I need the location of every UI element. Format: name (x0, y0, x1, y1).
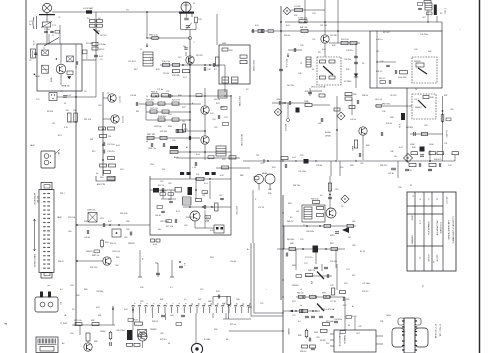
svg-text:13: 13 (210, 303, 212, 305)
svg-text:USE QTY: USE QTY (445, 196, 447, 205)
svg-text:KEY 4.7k: KEY 4.7k (285, 59, 287, 67)
svg-text:0.1: 0.1 (184, 299, 187, 301)
svg-text:OTL: OTL (376, 51, 380, 53)
svg-text:7: 7 (171, 303, 173, 304)
svg-text:40: 40 (146, 141, 148, 143)
svg-text:REMARKS: REMARKS (411, 236, 414, 246)
svg-text:K006: K006 (51, 78, 53, 82)
svg-text:+L 12k: +L 12k (32, 40, 34, 45)
svg-text:R55: R55 (340, 167, 343, 169)
svg-text:C5 25: C5 25 (85, 55, 87, 60)
svg-text:DETECTOR: DETECTOR (240, 134, 242, 146)
svg-text:C13: C13 (110, 159, 113, 161)
svg-text:R80: R80 (298, 335, 301, 337)
svg-text:TONE 20k: TONE 20k (298, 18, 307, 20)
svg-text:17k: 17k (196, 174, 199, 176)
svg-text:C50: C50 (450, 109, 453, 111)
svg-text:PB 4R: PB 4R (35, 76, 41, 78)
svg-text:2SC372: 2SC372 (196, 55, 203, 57)
svg-text:8: 8 (178, 303, 180, 304)
svg-text:D2: D2 (341, 206, 343, 208)
svg-text:C75 100u: C75 100u (362, 283, 370, 285)
svg-text:2SB54: 2SB54 (100, 331, 106, 333)
svg-text:C2: C2 (58, 17, 60, 19)
svg-text:C20 40: C20 40 (130, 95, 136, 97)
svg-text:RECORDER PIN: RECORDER PIN (436, 221, 438, 236)
svg-text:2SC732GR: 2SC732GR (252, 60, 254, 72)
svg-text:B+ 9V: B+ 9V (360, 251, 366, 253)
svg-text:C51: C51 (444, 143, 447, 145)
svg-text:C80: C80 (316, 337, 319, 339)
svg-text:SP 8R: SP 8R (320, 340, 326, 342)
svg-text:CR2 10p: CR2 10p (154, 126, 161, 128)
svg-text:0.1: 0.1 (60, 289, 63, 291)
svg-text:C45 1u: C45 1u (350, 119, 356, 121)
svg-text:2SA101: 2SA101 (415, 106, 422, 109)
svg-text:0.1: 0.1 (170, 287, 173, 289)
svg-text:4: 4 (152, 303, 154, 304)
svg-text:T1: T1 (43, 48, 45, 50)
svg-text:R13: R13 (100, 177, 103, 179)
svg-text:C57 30: C57 30 (258, 207, 264, 209)
svg-text:2SB324: 2SB324 (292, 285, 299, 287)
svg-text:C68 100u: C68 100u (306, 231, 314, 233)
svg-text:0.04: 0.04 (205, 221, 209, 223)
svg-text:R74: R74 (292, 301, 295, 303)
svg-text:2SC734: 2SC734 (287, 85, 294, 87)
svg-text:C89: C89 (160, 333, 163, 335)
svg-text:400Hz: 400Hz (325, 132, 331, 134)
svg-text:R40: R40 (366, 145, 369, 147)
svg-text:R33: R33 (305, 91, 308, 93)
svg-text:R46: R46 (430, 97, 433, 99)
svg-text:SW2: SW2 (248, 307, 252, 309)
svg-text:C59 40: C59 40 (230, 261, 236, 263)
svg-text:IFT2: IFT2 (176, 211, 180, 213)
svg-text:C86: C86 (170, 315, 173, 317)
svg-text:C60: C60 (68, 231, 71, 233)
svg-text:REC: REC (240, 175, 245, 177)
svg-text:C90: C90 (398, 187, 401, 189)
svg-text:CR6 6: CR6 6 (276, 99, 283, 101)
svg-text:+on: +on (47, 285, 50, 287)
svg-text:R21 4.7k: R21 4.7k (172, 100, 180, 102)
svg-text:C58 30p: C58 30p (96, 291, 103, 293)
svg-text:100-196: 100-196 (436, 255, 438, 262)
svg-text:R88: R88 (208, 301, 211, 303)
svg-text:1.8 2W: 1.8 2W (294, 6, 300, 8)
svg-text:C70: C70 (300, 239, 303, 241)
svg-text:ANT PIN: ANT PIN (97, 183, 105, 186)
svg-text:P.U. BOARD: P.U. BOARD (439, 223, 442, 234)
svg-text:C14: C14 (120, 169, 123, 171)
svg-text:1 2 3: 1 2 3 (419, 220, 421, 224)
svg-text:CR7 27k: CR7 27k (150, 108, 158, 110)
svg-text:MW OSC: MW OSC (382, 104, 391, 106)
svg-text:0.01: 0.01 (204, 183, 208, 185)
svg-text:100P: 100P (410, 144, 415, 146)
svg-text:R23: R23 (216, 103, 219, 105)
svg-text:2: 2 (194, 42, 195, 44)
svg-text:R39: R39 (350, 165, 353, 167)
svg-text:0.02: 0.02 (124, 309, 128, 311)
svg-text:CR 30: CR 30 (388, 173, 395, 175)
svg-text:2SC372: 2SC372 (118, 96, 120, 103)
svg-text:8 OHM: 8 OHM (204, 339, 210, 341)
svg-text:C4: C4 (100, 59, 102, 61)
svg-text:TP1: TP1 (256, 155, 259, 157)
svg-text:10k: 10k (108, 136, 111, 138)
svg-text:R12: R12 (92, 151, 95, 153)
svg-text:R42 0.5: R42 0.5 (379, 78, 385, 80)
svg-text:4 5: 4 5 (419, 257, 421, 260)
svg-text:C19 40: C19 40 (163, 73, 169, 75)
svg-text:C78: C78 (358, 326, 361, 328)
svg-text:1 2: 1 2 (427, 198, 429, 201)
svg-text:R69: R69 (292, 265, 295, 267)
svg-text:LOCATION OF COMPONENTS: LOCATION OF COMPONENTS (452, 217, 455, 244)
svg-text:C42: C42 (380, 61, 383, 63)
svg-text:R27 1k: R27 1k (158, 185, 164, 187)
svg-text:R84: R84 (84, 289, 87, 291)
svg-text:0.02: 0.02 (222, 303, 226, 305)
svg-text:R57 1.5k: R57 1.5k (166, 226, 173, 228)
svg-text:R22: R22 (182, 107, 185, 109)
svg-text:0.01: 0.01 (322, 49, 326, 51)
svg-text:T4: T4 (415, 89, 417, 91)
svg-text:CWR 47u: CWR 47u (87, 210, 96, 212)
svg-text:40: 40 (168, 343, 170, 345)
svg-text:C32: C32 (219, 195, 222, 197)
svg-text:0.02: 0.02 (108, 221, 112, 223)
svg-text:R87: R87 (160, 299, 163, 301)
svg-text:PIN 20: PIN 20 (58, 261, 64, 263)
svg-text:2: 2 (139, 303, 141, 304)
svg-text:C17: C17 (178, 57, 181, 59)
svg-text:R79 1k: R79 1k (230, 324, 236, 326)
svg-text:1000u: 1000u (386, 315, 391, 317)
svg-text:C69: C69 (352, 245, 355, 247)
svg-text:MODULATOR: MODULATOR (33, 193, 36, 206)
svg-text:C64: C64 (115, 265, 118, 267)
svg-text:2SB405: 2SB405 (150, 329, 157, 331)
svg-text:0.04: 0.04 (292, 157, 296, 159)
svg-text:9: 9 (184, 303, 186, 304)
svg-text:TAPE: TAPE (57, 216, 62, 219)
svg-text:D1: D1 (362, 63, 364, 65)
svg-text:JACK: JACK (30, 144, 36, 147)
svg-text:40: 40 (312, 69, 314, 71)
svg-text:RN6: RN6 (168, 126, 172, 128)
svg-text:R31 150: R31 150 (341, 39, 349, 41)
svg-text:C71 47u: C71 47u (305, 257, 313, 259)
svg-text:BAL 20k: BAL 20k (300, 26, 308, 29)
svg-text:BIAS: BIAS (351, 146, 354, 151)
svg-text:2SB377: 2SB377 (186, 217, 193, 219)
svg-text:RW7 RN: RW7 RN (147, 134, 155, 136)
svg-text:2x: 2x (141, 258, 143, 260)
svg-text:C49: C49 (424, 125, 427, 127)
svg-text:C37: C37 (312, 39, 315, 41)
svg-text:C24: C24 (168, 114, 171, 116)
svg-text:C25: C25 (214, 127, 217, 129)
svg-text:6: 6 (165, 303, 167, 304)
svg-text:R63: R63 (288, 203, 291, 205)
svg-text:R45 220: R45 220 (380, 165, 387, 167)
svg-text:LOOP ANT: LOOP ANT (83, 7, 94, 10)
svg-text:SW3: SW3 (84, 221, 88, 223)
svg-text:R62 150: R62 150 (311, 199, 319, 201)
svg-text:MWB 7W: MWB 7W (62, 85, 70, 87)
svg-text:D3: D3 (394, 156, 396, 158)
svg-text:R16 2.2k: R16 2.2k (162, 61, 170, 63)
svg-text:C53: C53 (448, 165, 451, 167)
svg-text:C66: C66 (352, 221, 355, 223)
svg-text:R77: R77 (343, 305, 346, 307)
svg-text:3 4: 3 4 (436, 198, 438, 201)
svg-text:R90: R90 (214, 329, 217, 331)
svg-text:C74: C74 (346, 269, 349, 271)
svg-text:0.04: 0.04 (196, 154, 200, 156)
svg-text:C79: C79 (292, 315, 295, 317)
svg-text:0.5: 0.5 (320, 195, 323, 197)
svg-text:R8 220: R8 220 (47, 111, 53, 113)
svg-text:10u 50V: 10u 50V (445, 130, 447, 138)
svg-text:T7 100V: T7 100V (60, 323, 68, 325)
svg-text:C65: C65 (335, 189, 338, 191)
svg-text:C88: C88 (236, 299, 239, 301)
svg-text:PUR RN: PUR RN (158, 116, 166, 118)
svg-text:B+: B+ (352, 306, 354, 308)
svg-text:19: 19 (248, 303, 250, 305)
svg-text:C35: C35 (300, 45, 303, 47)
svg-text:0.1: 0.1 (183, 263, 185, 266)
svg-text:R54: R54 (210, 257, 213, 259)
svg-text:x2: x2 (300, 289, 302, 291)
svg-text:RW2 1.2k: RW2 1.2k (149, 35, 158, 37)
svg-text:LT 750 17 12A: LT 750 17 12A (439, 324, 442, 337)
svg-text:10k: 10k (182, 121, 185, 123)
svg-text:C27: C27 (160, 181, 163, 183)
svg-text:100u 10V: 100u 10V (398, 77, 407, 79)
svg-text:TU: TU (126, 10, 129, 12)
svg-text:R91: R91 (310, 281, 312, 284)
svg-text:TRANSISTOR: TRANSISTOR (338, 333, 341, 347)
svg-text:C48: C48 (390, 151, 393, 153)
svg-text:2SB375: 2SB375 (128, 243, 135, 245)
svg-text:T3: T3 (300, 63, 302, 65)
svg-text:0.5: 0.5 (298, 321, 301, 323)
svg-text:C10: C10 (98, 105, 101, 107)
svg-text:3: 3 (146, 303, 148, 304)
svg-text:10: 10 (190, 303, 192, 305)
svg-text:C47: C47 (414, 99, 417, 101)
svg-text:C46: C46 (382, 111, 385, 113)
svg-text:VR2 10k: VR2 10k (68, 217, 75, 219)
svg-text:R38 1k: R38 1k (362, 95, 368, 97)
svg-text:C56: C56 (360, 163, 363, 165)
svg-text:1k: 1k (146, 96, 148, 98)
svg-text:C58: C58 (184, 225, 187, 227)
svg-text:CR4: CR4 (150, 164, 154, 166)
svg-text:R49 4.7k: R49 4.7k (434, 159, 441, 161)
svg-text:0.02: 0.02 (220, 175, 224, 177)
svg-text:C38: C38 (298, 73, 301, 75)
svg-text:C23: C23 (212, 119, 215, 121)
svg-text:CWF: CWF (304, 101, 309, 103)
svg-text:R7: R7 (64, 103, 66, 105)
svg-text:SW: SW (90, 139, 93, 141)
svg-text:C76: C76 (330, 285, 333, 287)
svg-text:R58: R58 (126, 221, 129, 223)
svg-text:C8: C8 (84, 91, 86, 93)
svg-text:C72: C72 (260, 303, 263, 305)
svg-text:C34: C34 (312, 13, 315, 15)
svg-text:R28: R28 (168, 199, 171, 201)
svg-text:C33 47u: C33 47u (346, 50, 353, 52)
svg-text:VOL 20k: VOL 20k (320, 25, 327, 27)
svg-text:1k: 1k (96, 173, 98, 175)
svg-text:R64 560: R64 560 (287, 239, 294, 241)
svg-text:0.02: 0.02 (96, 307, 100, 309)
svg-text:C39 10u: C39 10u (344, 59, 351, 61)
svg-text:VR1 5k 12V 6A: VR1 5k 12V 6A (311, 86, 326, 89)
svg-text:R36: R36 (346, 69, 349, 71)
svg-text:LEVEL: LEVEL (325, 136, 332, 138)
svg-text:0.5W: 0.5W (352, 316, 357, 318)
svg-text:R49: R49 (76, 295, 79, 297)
svg-text:FM - AM: FM - AM (36, 196, 39, 203)
svg-text:C2 30p: C2 30p (44, 29, 50, 31)
svg-text:R59 1k: R59 1k (110, 243, 116, 245)
svg-text:R68 1: R68 1 (330, 235, 335, 237)
svg-text:D4: D4 (348, 237, 350, 239)
svg-text:R41 0.5: R41 0.5 (376, 71, 382, 73)
svg-text:WS2 to RT6 9A: WS2 to RT6 9A (321, 308, 335, 311)
svg-text:0.02: 0.02 (286, 25, 290, 27)
svg-text:2SC733Y: 2SC733Y (235, 206, 237, 216)
svg-text:SP OUT: SP OUT (383, 32, 391, 34)
svg-text:C60: C60 (124, 237, 127, 239)
svg-text:0.04: 0.04 (116, 145, 120, 147)
svg-text:2SB376: 2SB376 (414, 61, 421, 63)
svg-text:SPEAKER 4TH: SPEAKER 4TH (427, 221, 430, 235)
svg-text:C85: C85 (140, 301, 143, 303)
svg-text:R76 0.5: R76 0.5 (362, 291, 368, 293)
svg-text:0.01: 0.01 (183, 77, 187, 79)
svg-text:C43: C43 (414, 49, 417, 51)
svg-text:R29: R29 (222, 159, 225, 161)
svg-text:C87: C87 (198, 299, 201, 301)
svg-text:C21 4u: C21 4u (157, 89, 163, 91)
svg-text:18: 18 (242, 303, 244, 305)
svg-text:R18 330: R18 330 (172, 75, 180, 77)
svg-text:C73: C73 (304, 263, 307, 265)
svg-text:HEAD: HEAD (262, 172, 268, 175)
svg-text:A4 B2: A4 B2 (411, 216, 414, 221)
svg-text:C57: C57 (200, 289, 203, 291)
svg-text:R50 5.6k: R50 5.6k (120, 213, 128, 215)
svg-text:R26 56k: R26 56k (160, 131, 167, 133)
svg-text:2SB375: 2SB375 (86, 251, 93, 253)
svg-text:R78: R78 (346, 299, 349, 301)
svg-text:C30: C30 (268, 189, 271, 191)
svg-text:4.7k: 4.7k (64, 127, 68, 129)
svg-text:C59 40: C59 40 (84, 237, 90, 239)
svg-text:C84: C84 (70, 333, 73, 335)
svg-text:P2: P2 (410, 185, 412, 187)
svg-text:0.5: 0.5 (290, 217, 293, 219)
svg-text:4 Ohm: 4 Ohm (444, 8, 446, 15)
svg-text:C94 470u: C94 470u (334, 319, 342, 321)
svg-text:R42: R42 (428, 51, 431, 53)
svg-text:L1: L1 (52, 35, 54, 37)
svg-text:VOL 300: VOL 300 (427, 254, 429, 261)
svg-text:4.7k: 4.7k (398, 124, 400, 128)
svg-text:0.01: 0.01 (255, 25, 259, 27)
svg-text:RN5: RN5 (178, 95, 182, 97)
svg-text:TBA810S: TBA810S (343, 335, 346, 345)
svg-text:2SC732BL: 2SC732BL (238, 96, 240, 107)
svg-text:C63 4.7u: C63 4.7u (112, 251, 120, 253)
svg-text:C55 100u: C55 100u (298, 171, 306, 173)
svg-text:LINE GEN ATTACHED: LINE GEN ATTACHED (447, 220, 450, 240)
svg-text:C28: C28 (168, 183, 171, 185)
svg-text:PIN 1: PIN 1 (60, 193, 65, 195)
svg-text:5: 5 (158, 303, 160, 304)
svg-text:C81: C81 (380, 321, 383, 323)
svg-text:C11: C11 (52, 123, 55, 125)
svg-text:12: 12 (203, 303, 205, 305)
svg-text:R89 1k: R89 1k (152, 321, 158, 323)
svg-text:C67: C67 (296, 211, 299, 213)
svg-text:R15: R15 (199, 19, 202, 21)
svg-text:R81 10k: R81 10k (74, 320, 81, 322)
svg-text:C54: C54 (260, 163, 263, 165)
svg-text:R85: R85 (98, 315, 101, 317)
svg-text:2SC735: 2SC735 (330, 35, 337, 37)
svg-text:17: 17 (235, 303, 237, 305)
svg-text:1k: 1k (300, 305, 302, 307)
svg-text:R57: R57 (206, 217, 209, 219)
svg-text:VC2: VC2 (36, 99, 40, 101)
svg-text:2SB405: 2SB405 (287, 328, 289, 335)
svg-text:R24 1k: R24 1k (214, 99, 220, 101)
svg-text:C83: C83 (70, 285, 73, 287)
svg-text:R86: R86 (94, 341, 97, 343)
svg-text:R4 1k: R4 1k (99, 49, 105, 51)
svg-text:OSC BIAS: OSC BIAS (160, 220, 169, 223)
svg-text:R43 2k: R43 2k (386, 123, 392, 125)
svg-text:R44: R44 (390, 117, 393, 119)
svg-text:C26: C26 (172, 140, 175, 142)
svg-text:WS2 7k: WS2 7k (308, 270, 315, 272)
svg-text:R3 100k: R3 100k (86, 43, 93, 45)
svg-text:2SC373: 2SC373 (121, 116, 123, 123)
svg-text:R48: R48 (412, 147, 415, 149)
svg-text:C23: C23 (224, 117, 227, 119)
svg-text:LW 1.5k: LW 1.5k (375, 99, 382, 101)
svg-text:1: 1 (133, 303, 135, 304)
svg-text:C56: C56 (140, 287, 143, 289)
svg-text:0.01: 0.01 (399, 147, 403, 149)
svg-text:C3 30p: C3 30p (99, 44, 107, 46)
svg-text:T4 OSC: T4 OSC (390, 95, 397, 97)
svg-text:C82 100u: C82 100u (116, 330, 125, 332)
svg-text:R70 220: R70 220 (330, 261, 337, 263)
svg-text:RN5 1k: RN5 1k (151, 92, 158, 94)
svg-text:R73 0.5: R73 0.5 (160, 339, 167, 341)
